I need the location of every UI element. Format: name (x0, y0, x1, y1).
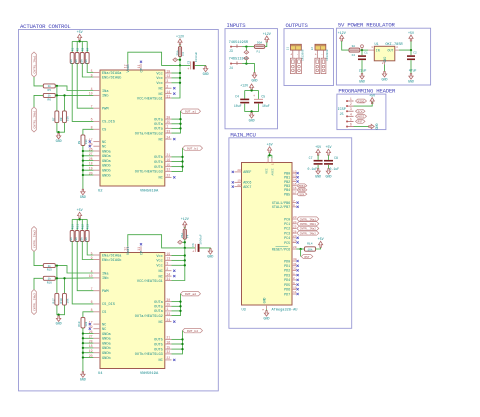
junction OUTa bus (179, 123, 181, 125)
svg-text:PB5: PB5 (284, 193, 290, 197)
svg-text:NC: NC (102, 141, 106, 145)
wire pulldowns to ground (57, 123, 65, 133)
wire cap to ground (195, 64, 206, 67)
junction pulldown ground (57, 131, 59, 133)
svg-text:GNDb: GNDb (102, 173, 111, 178)
wire fuse to +12V rail (179, 57, 181, 66)
resistor R1 10k (70, 53, 74, 64)
U3 pin 2 PD4 (no connect) (292, 279, 296, 281)
svg-text:OKI-78SR: OKI-78SR (385, 43, 403, 47)
U4 pin 12 Vbat (127, 246, 129, 252)
svg-text:INa: INa (102, 272, 109, 276)
junction OUTb bus (181, 343, 183, 345)
wire Vcc pin to bus (172, 77, 181, 79)
wire R4 pullup to ENa (87, 64, 93, 73)
+5V supply symbol (78, 212, 82, 218)
net flag CNTRL_INa2 (32, 227, 37, 252)
svg-text:10k: 10k (307, 247, 312, 251)
wire +12V to fuse F4 (184, 227, 186, 229)
svg-text:OUTb: OUTb (154, 347, 163, 352)
svg-text:VNH5019A: VNH5019A (140, 372, 159, 376)
wire +5V to C8 (328, 155, 330, 160)
net flag CNTRL_INb2 (32, 290, 37, 315)
junction +5V rail (78, 40, 80, 42)
+5V supply symbol regulator (409, 35, 413, 41)
+5V supply symbol R14 (319, 241, 323, 247)
svg-text:+5V: +5V (77, 31, 83, 35)
svg-text:Vcc: Vcc (156, 77, 162, 81)
junction VCC (268, 154, 270, 156)
wire C2 to ground (410, 60, 412, 74)
svg-text:PWM: PWM (102, 290, 108, 294)
section frame INPUTS (225, 29, 278, 129)
svg-text:GND: GND (80, 378, 86, 382)
svg-text:OUTa/HEATSLG2: OUTa/HEATSLG2 (135, 314, 163, 319)
svg-text:ENb/DIAGb: ENb/DIAGb (102, 75, 121, 80)
svg-text:CS_DIS: CS_DIS (102, 303, 115, 307)
svg-text:SCK: SCK (299, 193, 304, 196)
header J5 pin 4 (346, 116, 348, 118)
U3 pin 26 PC3 (292, 232, 296, 234)
svg-text:PD6: PD6 (284, 289, 290, 293)
U3 pin 11 PD7 (no connect) (292, 293, 296, 295)
svg-text:1N13968: 1N13968 (302, 49, 305, 61)
U3 pin 25 PC2 (292, 227, 296, 229)
net flag MOSI (356, 114, 367, 118)
U3 pin 8 XTAL2/PB7 (292, 206, 296, 208)
net flag CNTRL_INb1 (297, 222, 319, 226)
capacitor C2 47uF (410, 50, 412, 55)
svg-text:+5V: +5V (325, 146, 331, 150)
U3 pin 27 PC4 (292, 237, 296, 239)
svg-text:24: 24 (166, 135, 170, 139)
U4 pin 3 Vcc (165, 264, 172, 266)
svg-text:OUTb/HEATSLG3: OUTb/HEATSLG3 (135, 352, 163, 357)
svg-text:10k: 10k (65, 298, 69, 303)
junction Vcc bus (184, 254, 186, 256)
section frame MAIN_MCU (229, 138, 352, 328)
svg-text:10uF: 10uF (234, 104, 242, 108)
motor driver IC U2 VNH5019A (100, 70, 165, 186)
svg-text:CNTRL_INb1: CNTRL_INb1 (32, 110, 36, 128)
svg-text:NC: NC (158, 88, 162, 92)
+5V supply symbol C8 (326, 149, 330, 155)
svg-text:NC: NC (158, 93, 162, 97)
U4 pin 10 INb (93, 277, 100, 279)
svg-text:R6: R6 (48, 99, 52, 102)
+12V supply symbol inputs (265, 36, 269, 42)
junction INb node (56, 277, 58, 279)
wire OUT_a2 bus (172, 294, 181, 316)
wire INa net (55, 86, 93, 91)
U4 pin 33 OUTa/HEATSLG2 (165, 315, 172, 317)
svg-text:11: 11 (137, 247, 141, 251)
wire regulator GND to ground (384, 65, 386, 72)
svg-text:1: 1 (166, 125, 168, 129)
U4 pin 9 ENb/DIAGb (93, 259, 100, 261)
U2 pin 19 Vcc (165, 72, 172, 74)
wire Vbat feed (128, 235, 196, 248)
junction +5V rail (78, 218, 80, 220)
svg-text:0.1uF: 0.1uF (308, 167, 318, 171)
svg-text:OUT_a2: OUT_a2 (185, 292, 196, 296)
junction C1 tap (361, 49, 363, 51)
junction pulldown ground (57, 314, 59, 316)
wire OUTa pin to bus (172, 127, 181, 129)
svg-text:25: 25 (293, 226, 297, 229)
svg-text:ENa/DIAGa: ENa/DIAGa (102, 71, 122, 76)
section frame OUTPUTS (284, 29, 334, 86)
wire GND pin to bus (83, 342, 94, 344)
net flag OUT_b1 (183, 146, 203, 150)
danger flag diamond J4 (244, 56, 249, 60)
wire R4 pullup to ENa (87, 242, 93, 256)
resistor R4 10k (85, 53, 89, 64)
svg-text:NC: NC (102, 328, 106, 332)
svg-text:GND: GND (207, 255, 213, 259)
ground symbol pulldowns (56, 316, 60, 322)
svg-text:R7: R7 (52, 117, 55, 121)
wire pin6 to ground (354, 126, 369, 128)
svg-text:1: 1 (350, 97, 352, 101)
U3 pin 17 PB5 (292, 193, 296, 195)
wire Vcc bus (172, 65, 181, 98)
svg-text:R17: R17 (52, 298, 55, 303)
wire CNTRL_INa1 to R5 (34, 77, 43, 86)
U2 pin 13 Vcc (165, 77, 172, 79)
U2 pin 10 INb (93, 94, 100, 96)
ground symbol pulldowns (56, 133, 60, 139)
wire +12V to fuse F2 (342, 41, 349, 50)
U4 pin 15 OUTb (165, 348, 172, 350)
svg-text:+12V: +12V (338, 32, 346, 36)
U4 pin 30 OUTa (165, 301, 172, 303)
svg-text:12: 12 (124, 64, 128, 68)
svg-text:C3: C3 (187, 60, 190, 64)
svg-text:MISO: MISO (358, 100, 365, 103)
svg-text:4: 4 (265, 161, 268, 163)
svg-text:10k: 10k (74, 237, 78, 242)
fuse F4 25A (183, 229, 186, 239)
svg-text:33: 33 (166, 129, 170, 133)
svg-text:OUTPUTS: OUTPUTS (286, 22, 309, 29)
svg-text:GND: GND (252, 79, 258, 83)
wire ground bus (82, 146, 84, 190)
svg-text:25: 25 (166, 303, 170, 307)
svg-text:21: 21 (166, 153, 170, 157)
junction INa node (56, 264, 58, 266)
svg-text:R11: R11 (76, 224, 79, 229)
junction filter top (250, 89, 252, 91)
svg-text:NC: NC (158, 138, 162, 142)
junction GND bus (82, 174, 84, 176)
wire R1 pullup to CS_DIS (72, 242, 93, 304)
junction fuse diamond (179, 59, 181, 61)
svg-text:GND: GND (56, 139, 62, 143)
svg-text:6: 6 (350, 123, 352, 127)
svg-text:PC4: PC4 (284, 237, 290, 241)
junction +12V rail (179, 64, 181, 66)
junction J4 (245, 62, 247, 64)
svg-text:PD5: PD5 (284, 284, 290, 288)
svg-text:10k: 10k (65, 116, 69, 121)
junction OUTa bus (179, 310, 181, 312)
resistor R12 10k (80, 231, 84, 242)
svg-text:27: 27 (293, 235, 297, 238)
wire F1 to +12V (265, 42, 267, 47)
net flag MISO (297, 188, 307, 192)
svg-text:2: 2 (293, 277, 295, 280)
svg-text:10k: 10k (84, 139, 88, 144)
junction OUTa bus (179, 300, 181, 302)
svg-text:11: 11 (137, 64, 141, 68)
svg-text:OUTb: OUTb (154, 160, 163, 165)
svg-text:3: 3 (396, 46, 398, 49)
svg-text:OUTb: OUTb (154, 342, 163, 347)
wire OUTa pin to bus (172, 310, 181, 312)
svg-text:PC5: PC5 (284, 242, 290, 246)
U3 pin 29 RESET/PC6 (292, 248, 296, 250)
svg-text:14: 14 (293, 179, 297, 182)
svg-text:30: 30 (166, 298, 170, 302)
wire OUTb pin to bus (172, 166, 183, 168)
svg-text:AVCC: AVCC (271, 168, 274, 175)
svg-text:10uF: 10uF (262, 104, 270, 108)
wire R2 pullup to PWM (77, 242, 93, 291)
svg-text:R16: R16 (47, 281, 52, 284)
svg-text:10: 10 (293, 287, 297, 290)
svg-text:J2: J2 (311, 47, 314, 51)
U4 pin 26 GNDa (93, 333, 100, 335)
svg-text:PROGRAMMING HEADER: PROGRAMMING HEADER (338, 88, 396, 95)
danger flag diamond (173, 58, 178, 62)
svg-text:RST: RST (358, 121, 363, 124)
U4 pin 19 Vcc (165, 255, 172, 257)
U4 pin 2 NC (165, 270, 172, 272)
svg-text:28: 28 (293, 240, 297, 243)
wire GND pin to bus (83, 352, 94, 354)
wire +12V to filter caps (251, 89, 253, 92)
svg-text:10k: 10k (84, 237, 88, 242)
wire CS to pulldown resistor (83, 129, 94, 135)
svg-text:OUTb/HEATSLG3: OUTb/HEATSLG3 (135, 170, 163, 175)
svg-text:2: 2 (382, 62, 384, 65)
U3 pin 20 AREF (no connect) (235, 171, 242, 173)
resistor R6 1k (43, 93, 55, 97)
junction OUTa bus (179, 305, 181, 307)
svg-text:GNDa: GNDa (102, 150, 111, 154)
net flag SCK (297, 192, 307, 196)
svg-text:CNTRL_INa1: CNTRL_INa1 (300, 218, 317, 221)
svg-text:22: 22 (166, 356, 170, 360)
svg-text:OUT: OUT (388, 49, 394, 53)
svg-text:OUTa: OUTa (154, 118, 163, 122)
net flag RST (356, 120, 366, 124)
svg-text:+: + (192, 250, 194, 254)
svg-text:J4: J4 (229, 66, 233, 70)
resistor R8 10k pulldown (63, 111, 67, 123)
svg-text:16: 16 (166, 340, 170, 344)
svg-text:PD3: PD3 (284, 274, 290, 278)
U3 pin 22 ADC7 (no connect) (235, 186, 242, 188)
svg-text:CS_DIS: CS_DIS (102, 121, 115, 125)
svg-text:PC2: PC2 (284, 228, 290, 232)
net flag SCK (356, 109, 366, 113)
svg-text:13: 13 (293, 175, 297, 178)
svg-text:J5: J5 (340, 113, 344, 117)
svg-text:3: 3 (166, 79, 168, 83)
svg-text:15: 15 (166, 163, 170, 167)
svg-text:ICSP: ICSP (338, 108, 346, 112)
svg-text:R3: R3 (82, 47, 85, 51)
junction GND bus (82, 155, 84, 157)
svg-text:10k: 10k (79, 237, 83, 242)
svg-text:C7: C7 (309, 156, 313, 160)
svg-text:Vcc: Vcc (156, 260, 162, 264)
danger flag diamond J3 (244, 50, 249, 54)
+5V supply symbol MCU (268, 147, 272, 153)
wire R14 to +5V (316, 247, 321, 249)
wire OUTb pin to bus (172, 343, 183, 345)
U2 pin 26 GNDa (93, 150, 100, 152)
svg-text:2: 2 (350, 102, 352, 106)
U4 pin 32 OUTb/HEATSLG3 (165, 353, 172, 355)
section frame 5V POWER REGULATOR (336, 28, 430, 85)
net flag MISO (356, 99, 367, 103)
ground symbol IC ground bus (81, 372, 85, 378)
svg-text:GND: GND (80, 195, 86, 199)
wire C7 to ground (317, 165, 319, 169)
svg-text:OUT_a1: OUT_a1 (185, 110, 196, 114)
svg-text:PC0: PC0 (284, 218, 290, 222)
resistor R19 10k on CS (81, 317, 85, 328)
svg-text:5: 5 (350, 117, 352, 121)
U2 pin 14 NC (165, 93, 172, 95)
junction OUTb bus (181, 160, 183, 162)
+12V supply symbol filter caps (250, 84, 254, 90)
svg-text:+12V: +12V (240, 85, 248, 89)
svg-text:17: 17 (293, 191, 297, 194)
svg-text:ENb/DIAGb: ENb/DIAGb (102, 258, 121, 263)
section frame ACTUATOR CONTROL (19, 30, 219, 391)
junction GND bus (82, 352, 84, 354)
U4 pin 27 GNDa (93, 337, 100, 339)
U3 pin 9 PD5 (no connect) (292, 284, 296, 286)
svg-text:12: 12 (293, 170, 297, 173)
wire GND pin to bus (83, 155, 94, 157)
svg-text:+5V: +5V (408, 32, 414, 36)
net flag RST (301, 255, 313, 259)
svg-text:3: 3 (262, 308, 265, 310)
svg-text:23: 23 (293, 216, 297, 219)
wire OUTa pin to bus (172, 123, 181, 125)
svg-text:1k: 1k (48, 84, 52, 88)
wire RESET net (296, 248, 304, 250)
wire +5V rail to pullups (79, 40, 81, 41)
junction INb pulldown tap (63, 94, 65, 96)
wire OUT_a1 bus (172, 111, 181, 133)
motor driver IC U4 VNH5019A (100, 253, 165, 369)
wire GND pin to bus (83, 174, 94, 176)
wire Vcc pin to bus (172, 255, 185, 257)
svg-text:OUT_b2: OUT_b2 (187, 329, 198, 333)
junction GND bus (82, 169, 84, 171)
svg-text:C4: C4 (235, 95, 239, 99)
svg-text:R4: R4 (86, 47, 89, 51)
fuse F2 3A (349, 48, 360, 52)
svg-text:GNDa: GNDa (102, 338, 111, 342)
wire C8 to ground (328, 165, 330, 169)
svg-text:PD7: PD7 (284, 293, 290, 297)
net flag CNTRL_INb2 (297, 231, 319, 235)
U4 pin 31 VCC/HEATSLG1 (165, 280, 172, 282)
svg-text:MAIN_MCU: MAIN_MCU (230, 131, 255, 138)
svg-text:16: 16 (166, 158, 170, 162)
junction fuse diamond (184, 241, 186, 243)
U3 pin 28 PC5 (292, 242, 296, 244)
wire J3 to fuse F1 (242, 46, 254, 48)
junction GND bus (82, 332, 84, 334)
U4 pin 6 CS_DIS (93, 303, 100, 305)
U2 pin 28 GNDa (93, 160, 100, 162)
svg-text:7465119SR: 7465119SR (229, 41, 249, 45)
wire Vbat feed (128, 52, 191, 65)
ground symbol C7 (316, 169, 320, 175)
junction GND bus (82, 342, 84, 344)
capacitor C5 10uF polarized (254, 98, 263, 100)
svg-text:IN: IN (376, 49, 380, 53)
wire pullup R1 to +5V rail (71, 41, 73, 52)
wire J4 to ground (242, 64, 254, 73)
header J5 pin 2 (346, 105, 348, 107)
svg-text:+5V: +5V (315, 146, 321, 150)
ground symbol filter caps (249, 113, 253, 119)
U3 pin 16 PB4 (292, 189, 296, 191)
svg-text:RST: RST (304, 256, 309, 259)
junction C2 tap (410, 49, 412, 51)
U4 pin 29 NC (93, 328, 100, 330)
svg-text:21: 21 (166, 336, 170, 340)
wire GND pin to ground (266, 309, 268, 310)
svg-text:OUT_b1: OUT_b1 (187, 146, 198, 150)
svg-text:1000uF: 1000uF (200, 234, 203, 245)
svg-text:GNDb: GNDb (102, 169, 111, 174)
svg-text:32: 32 (293, 268, 297, 271)
svg-text:CNTRL_INa2: CNTRL_INa2 (300, 228, 317, 231)
junction GND bus (82, 356, 84, 358)
wire OUTb pin to bus (172, 156, 183, 158)
svg-text:GND: GND (262, 297, 266, 303)
svg-text:GNDb: GNDb (102, 351, 111, 356)
svg-text:CS: CS (102, 129, 106, 133)
svg-text:PC1: PC1 (284, 223, 290, 227)
U3 pin 18 AVCC (271, 158, 273, 162)
U2 pin 4 INa (93, 90, 100, 92)
resistor R10 10k (70, 231, 74, 242)
resistor R18 10k pulldown (63, 293, 67, 305)
header J5 pin 3 (346, 110, 348, 112)
U3 pin 32 PD2 (no connect) (292, 269, 296, 271)
svg-text:R10: R10 (71, 224, 74, 229)
wire INa net (55, 266, 93, 273)
svg-text:VCC/HEATSLG1: VCC/HEATSLG1 (137, 96, 163, 101)
svg-text:C1: C1 (364, 52, 368, 55)
svg-text:32: 32 (166, 350, 170, 354)
svg-text:1k: 1k (48, 264, 52, 268)
svg-text:F2: F2 (352, 54, 356, 57)
svg-text:13: 13 (166, 74, 170, 78)
section frame PROGRAMMING HEADER (337, 94, 386, 130)
